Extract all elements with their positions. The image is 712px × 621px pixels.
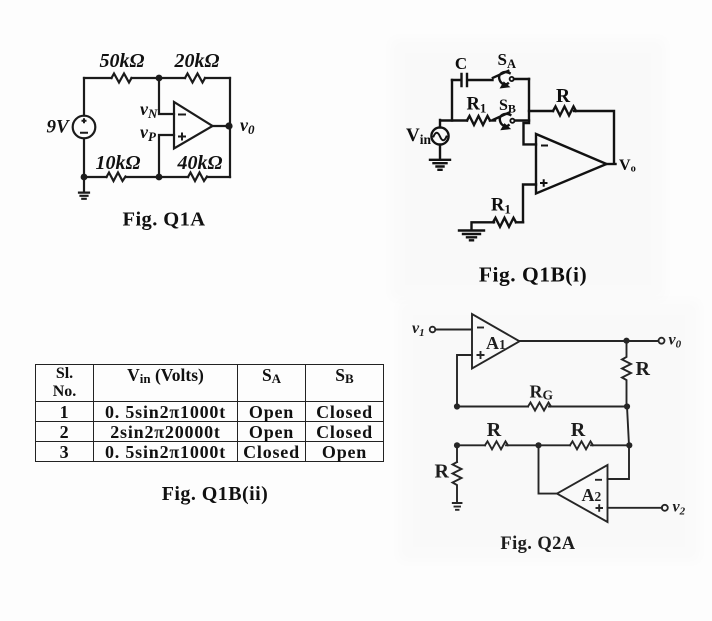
resistor 10k <box>107 173 126 182</box>
op-amp A1 <box>472 314 520 369</box>
svg-text:R: R <box>636 358 651 380</box>
capacitor C <box>452 74 493 86</box>
wire output Q1A <box>213 125 231 127</box>
node RG left <box>454 403 460 409</box>
resistor R row2 <box>570 441 593 449</box>
wire vN <box>159 78 174 114</box>
svg-text:vN: vN <box>140 99 158 121</box>
svg-text:Fig. Q2A: Fig. Q2A <box>500 534 575 554</box>
wire right vertical to A2 <box>608 445 630 479</box>
op-amp plus input mark <box>178 133 186 141</box>
scan tint Q1B(i) <box>390 38 666 300</box>
svg-text:Fig. Q1B(ii): Fig. Q1B(ii) <box>162 483 269 505</box>
wire R1 to ground <box>472 222 495 229</box>
op-amp U2 <box>536 134 607 194</box>
svg-text:20kΩ: 20kΩ <box>174 50 220 72</box>
table Q1B(ii) <box>35 364 384 462</box>
svg-text:C: C <box>455 54 467 73</box>
caption Fig. Q1B(ii) <box>162 483 269 505</box>
source V1 9V <box>73 116 96 139</box>
resistor 50k <box>112 74 132 83</box>
wire right vertical <box>524 79 537 144</box>
svg-text:50kΩ: 50kΩ <box>100 50 145 72</box>
node R row right <box>626 442 632 448</box>
ground bottom Q1B <box>459 231 484 241</box>
wire to R1 bottom <box>516 221 523 223</box>
svg-text:v0: v0 <box>240 115 255 137</box>
node Q1A bottom mid <box>156 174 163 181</box>
node Q1A bottom left <box>81 174 88 181</box>
wire SA to junction <box>514 78 529 80</box>
wire plus input <box>523 185 536 223</box>
ground Vin <box>430 145 450 170</box>
wire v1 to A1 <box>435 329 472 331</box>
node Q1A top <box>156 75 163 82</box>
op-amp U2 minus mark <box>541 145 548 147</box>
svg-text:9V: 9V <box>47 117 71 138</box>
switch SB <box>494 113 515 130</box>
wire A2 plus to v2 <box>608 507 663 509</box>
resistor 20k <box>185 74 205 83</box>
resistor R1 bottom <box>493 218 516 227</box>
wire right Q1A <box>229 78 231 177</box>
ground Q2A <box>453 503 462 510</box>
resistor R row1 <box>485 441 508 449</box>
A1 minus mark <box>477 327 484 329</box>
svg-text:40kΩ: 40kΩ <box>177 152 223 174</box>
svg-text:Fig. Q1A: Fig. Q1A <box>123 209 206 231</box>
svg-text:R: R <box>487 419 502 441</box>
resistor R vertical left <box>453 462 462 503</box>
node A1 out <box>623 338 629 344</box>
wire vP <box>159 135 174 177</box>
wire top left Q1A <box>84 77 230 79</box>
svg-text:vP: vP <box>140 122 157 144</box>
resistor RG <box>528 403 551 411</box>
wire RG row <box>457 406 627 408</box>
switch SA <box>493 71 514 88</box>
wire A1 plus input <box>457 355 472 407</box>
node R row mid <box>535 442 541 448</box>
wire Vin to node <box>440 120 467 127</box>
sine mark <box>434 133 447 141</box>
svg-text:R: R <box>435 461 450 483</box>
op-amp minus input mark <box>178 114 186 116</box>
svg-text:R: R <box>556 86 571 107</box>
op-amp U2 plus mark <box>540 179 548 187</box>
wire right vertical mid <box>627 407 629 446</box>
wire feedback <box>529 110 553 112</box>
svg-text:R: R <box>571 419 586 441</box>
terminal v1 <box>430 327 436 333</box>
A1 plus mark <box>477 351 485 359</box>
wire bottom Q1A <box>84 176 230 178</box>
wire R to output <box>574 111 614 164</box>
A2 plus mark <box>596 504 604 512</box>
wire R row <box>457 444 629 446</box>
A2 minus mark <box>595 479 602 481</box>
terminal v0 <box>659 338 665 344</box>
wire A2 output <box>539 445 558 493</box>
wire output <box>607 163 616 165</box>
op-amp U1 <box>174 102 213 149</box>
node R row left <box>454 442 460 448</box>
wire SB to junction <box>515 119 529 121</box>
ground Q1A <box>79 177 89 199</box>
wire A1 output <box>520 340 659 342</box>
node RG right <box>624 403 630 409</box>
source polarity marks <box>80 118 88 133</box>
resistor R1 input <box>467 116 490 125</box>
source Vin <box>431 127 448 144</box>
node v0 <box>225 122 232 129</box>
terminal v2 <box>662 505 668 511</box>
wire left Q1A <box>83 78 85 177</box>
resistor R feedback <box>553 107 576 116</box>
wire left vertical lower <box>456 445 458 462</box>
resistor 40k <box>188 173 207 182</box>
wire R1 to SB <box>490 119 495 121</box>
resistor R vertical right <box>622 341 631 407</box>
svg-text:Fig. Q1B(i): Fig. Q1B(i) <box>479 263 587 287</box>
op-amp A2 <box>557 465 608 522</box>
svg-text:10kΩ: 10kΩ <box>96 152 141 174</box>
scan tint Q2A <box>398 300 700 562</box>
wire left vertical <box>451 80 453 121</box>
